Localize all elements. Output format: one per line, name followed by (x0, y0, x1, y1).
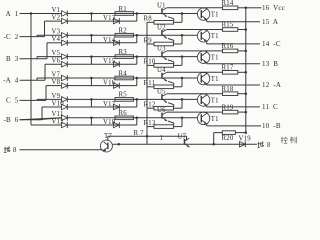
svg-text:T1: T1 (211, 55, 219, 62)
svg-text:R1: R1 (119, 6, 127, 13)
svg-text:R4: R4 (119, 70, 128, 77)
svg-text:11 C: 11 C (262, 103, 278, 111)
svg-text:B 3: B 3 (6, 55, 19, 63)
svg-text:T1: T1 (211, 12, 219, 19)
svg-text:R10: R10 (144, 59, 156, 66)
svg-text:R20: R20 (222, 135, 234, 142)
svg-text:R11: R11 (144, 80, 156, 87)
svg-text:R8: R8 (144, 16, 153, 23)
svg-text:V9: V9 (52, 93, 61, 100)
svg-text:12 -A: 12 -A (262, 81, 281, 89)
svg-text:R16: R16 (222, 43, 234, 50)
svg-text:V3: V3 (52, 29, 61, 36)
svg-text:-C 2: -C 2 (4, 33, 19, 41)
svg-text:10 -B: 10 -B (262, 122, 281, 130)
svg-text:R2: R2 (119, 28, 128, 35)
svg-text:R17: R17 (222, 65, 234, 72)
svg-text:13 B: 13 B (262, 60, 278, 68)
svg-text:15 A: 15 A (262, 18, 278, 26)
svg-text:-A 4: -A 4 (3, 77, 19, 85)
svg-text:C 5: C 5 (6, 97, 19, 105)
svg-text:R14: R14 (222, 0, 234, 7)
svg-text:V18: V18 (103, 119, 116, 126)
svg-text:R18: R18 (222, 86, 234, 93)
svg-text:R13: R13 (144, 120, 156, 127)
svg-text:U5: U5 (157, 89, 166, 96)
svg-text:V19: V19 (239, 135, 252, 142)
svg-text:A 1: A 1 (6, 10, 19, 18)
svg-text:R9: R9 (144, 37, 153, 44)
svg-text:V13: V13 (103, 15, 116, 22)
svg-text:T1: T1 (211, 33, 219, 40)
svg-text:T1: T1 (211, 97, 219, 104)
svg-text:8: 8 (267, 142, 271, 149)
svg-text:V1: V1 (52, 7, 61, 14)
svg-text:-B 6: -B 6 (4, 116, 19, 124)
svg-text:V11: V11 (52, 111, 64, 118)
svg-text:V16: V16 (103, 80, 116, 87)
svg-text:U4: U4 (157, 67, 166, 74)
svg-text:U2: U2 (157, 24, 166, 31)
svg-text:V2: V2 (52, 15, 61, 22)
svg-text:16 Vcc: 16 Vcc (262, 4, 285, 12)
svg-text:R5: R5 (119, 92, 128, 99)
svg-text:R12: R12 (144, 102, 156, 109)
svg-text:V12: V12 (52, 118, 65, 125)
svg-text:R 7: R 7 (134, 130, 145, 137)
svg-text:V4: V4 (52, 36, 61, 43)
svg-text:V15: V15 (103, 58, 116, 65)
svg-text:V5: V5 (52, 50, 61, 57)
svg-text:14 -C: 14 -C (262, 40, 281, 48)
svg-text:U1: U1 (157, 3, 166, 10)
svg-text:R3: R3 (119, 49, 128, 56)
svg-text:T1: T1 (211, 116, 219, 123)
svg-text:U3: U3 (157, 46, 166, 53)
svg-text:V7: V7 (52, 71, 61, 78)
svg-text:1: 1 (160, 135, 164, 142)
svg-text:V6: V6 (52, 58, 61, 65)
svg-text:U7: U7 (178, 134, 187, 141)
svg-text:T1: T1 (211, 76, 219, 83)
svg-text:V14: V14 (103, 37, 116, 44)
svg-text:R19: R19 (222, 104, 234, 111)
svg-text:V8: V8 (52, 79, 61, 86)
svg-text:U6: U6 (157, 107, 166, 114)
svg-text:V17: V17 (103, 101, 116, 108)
svg-text:8: 8 (13, 147, 17, 154)
svg-text:R15: R15 (222, 22, 234, 29)
svg-text:R6: R6 (119, 110, 128, 117)
svg-text:V10: V10 (52, 100, 65, 107)
